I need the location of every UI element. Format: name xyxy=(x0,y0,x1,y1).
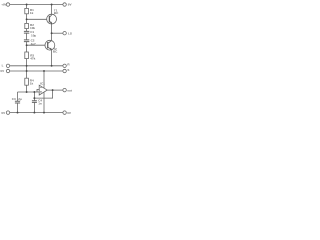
wire inverting input line xyxy=(18,91,40,93)
wire left decoupling branch xyxy=(17,92,19,101)
wire chain top xyxy=(26,5,28,9)
svg-text:out: out xyxy=(67,89,72,93)
svg-text:0V: 0V xyxy=(67,111,72,115)
node top-left terminal xyxy=(6,3,9,6)
arrow Q1 emitter xyxy=(50,22,52,24)
junction dot Q2 mid1 xyxy=(51,65,53,67)
arrow Q2 emitter xyxy=(50,48,52,50)
wire Q2 emitter down xyxy=(51,50,53,66)
wire C4 to ground rail xyxy=(33,102,35,112)
svg-text:1k: 1k xyxy=(30,11,34,15)
wire C3 to ground rail xyxy=(17,103,19,113)
svg-text:IC1: IC1 xyxy=(40,81,45,85)
wire mid line 2 xyxy=(10,70,63,72)
transistor Q2 xyxy=(45,40,55,50)
junction dot input chain xyxy=(26,91,28,93)
svg-text:1k: 1k xyxy=(30,82,34,86)
resistor R3 xyxy=(25,52,29,59)
junction dot base Q2 xyxy=(26,44,28,46)
capacitor C4 xyxy=(32,101,37,103)
svg-text:BC: BC xyxy=(54,11,59,15)
svg-text:10µ: 10µ xyxy=(31,33,36,37)
svg-text:+9V: +9V xyxy=(1,3,7,7)
wire mid line 1 xyxy=(10,65,63,67)
wire input riser stub xyxy=(37,89,39,92)
junction dot output xyxy=(52,89,54,91)
svg-text:L: L xyxy=(2,63,4,67)
svg-text:0V: 0V xyxy=(0,69,5,73)
junction dot feedback branch xyxy=(33,97,35,99)
junction dot opamp feed xyxy=(43,70,45,72)
svg-text:C3: C3 xyxy=(12,97,16,101)
svg-text:1n: 1n xyxy=(38,102,42,106)
node bottom-right terminal xyxy=(63,111,66,114)
svg-text:9V: 9V xyxy=(68,3,73,7)
wire R1 to C1 xyxy=(26,14,28,24)
junction dot input branch xyxy=(33,91,35,93)
node mid-right terminal 1 xyxy=(63,64,66,67)
capacitor C2 xyxy=(24,40,29,42)
wire feedback xyxy=(34,90,52,98)
junction dot emitter stub xyxy=(51,32,53,34)
svg-text:R: R xyxy=(67,62,70,66)
svg-text:4µ7: 4µ7 xyxy=(31,42,36,46)
junction dot rail V- xyxy=(43,112,45,114)
junction dot rail mid cap xyxy=(33,112,35,114)
node output terminal xyxy=(63,88,66,91)
wire mid branch xyxy=(33,92,35,101)
svg-text:47k: 47k xyxy=(30,56,35,60)
junction dot rail-Q1 xyxy=(51,4,53,6)
wire base Q1 xyxy=(27,18,47,20)
junction dot rail-chain xyxy=(26,4,28,6)
node mid-left terminal 2 xyxy=(6,69,9,72)
svg-text:0V: 0V xyxy=(1,111,6,115)
resistor R1 xyxy=(25,8,29,13)
node mid-left terminal 1 xyxy=(6,64,9,67)
node mid-right terminal xyxy=(63,32,66,35)
wire base Q2 xyxy=(27,44,45,46)
wire output xyxy=(47,89,63,91)
svg-text:LS: LS xyxy=(68,32,72,36)
wire bottom rail xyxy=(10,112,63,114)
resistor R4 xyxy=(25,78,29,85)
junction dot chain mid1 xyxy=(26,65,28,67)
node mid-right terminal 2 xyxy=(63,69,66,72)
wire C1 to C2 xyxy=(26,33,28,40)
wire R3 to bottom junctions xyxy=(26,59,28,79)
wire C2 down xyxy=(26,42,28,52)
capacitor C3 xyxy=(15,101,20,103)
wire op-amp V- pin xyxy=(43,92,45,112)
junction dot chain mid2 xyxy=(26,70,28,72)
junction dot rail left cap xyxy=(17,112,19,114)
capacitor C1 xyxy=(24,31,29,33)
wire Q1 collector xyxy=(51,5,53,15)
junction dot base Q1 xyxy=(26,18,28,20)
wire Q1 emitter to junction xyxy=(51,24,53,41)
node bottom-left terminal xyxy=(6,111,9,114)
transistor Q1 xyxy=(47,14,57,24)
svg-text:S: S xyxy=(67,68,69,72)
node top-right terminal xyxy=(63,3,66,6)
wire stub mid-right xyxy=(52,32,63,34)
op-amp U1 xyxy=(39,85,47,95)
wire top rail xyxy=(10,4,63,6)
svg-text:BC: BC xyxy=(53,50,58,54)
wire R2 to C1 xyxy=(26,29,28,32)
wire op-amp plus feed xyxy=(43,71,45,88)
resistor R2 xyxy=(25,23,29,28)
svg-text:2µ: 2µ xyxy=(18,97,22,101)
wire R4 to input node xyxy=(26,85,28,92)
